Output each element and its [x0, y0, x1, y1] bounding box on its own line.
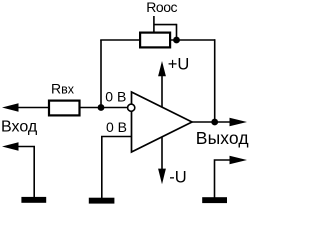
wiper tap of Rooc [153, 16, 155, 32]
ground (middle) [89, 198, 115, 204]
svg-text:0 В: 0 В [106, 119, 127, 135]
resistor Rooc [140, 33, 170, 48]
wire: feedback top horizontal [100, 39, 139, 41]
svg-text:Вход: Вход [1, 119, 38, 136]
ground (right) [202, 197, 227, 203]
wire: Rвх to summing node [80, 107, 102, 109]
svg-text:0 В: 0 В [105, 89, 126, 105]
svg-text:+U: +U [168, 56, 190, 74]
op-amp U1 triangle [132, 92, 193, 152]
+U supply line [161, 74, 163, 107]
wire: non-inverting input [102, 137, 132, 199]
inverting input bubble [128, 104, 135, 111]
output terminal arrow (upper, Выход) [230, 118, 248, 127]
svg-text:Выход: Выход [196, 128, 249, 148]
wire: op-amp output to node [192, 121, 230, 123]
node: output junction dot [211, 119, 218, 126]
svg-text:Rвх: Rвх [51, 81, 75, 97]
input terminal arrow (lower, grounded) [2, 142, 19, 150]
wire: input arrow to Rвх [17, 107, 49, 109]
wire: summing node to inverting input bubble [101, 107, 128, 109]
node: Rooc-output junction dot [173, 37, 180, 44]
-U supply line [161, 137, 163, 170]
node: summing junction dot [98, 104, 105, 111]
resistor Rвх [49, 101, 80, 116]
+U supply arrowhead [158, 61, 166, 76]
-U supply arrowhead [158, 169, 166, 185]
wire: lower input arrow to ground [17, 147, 34, 199]
wire: lower output arrow to ground [215, 160, 231, 198]
wire: Rooc right to corner [171, 39, 215, 41]
input terminal arrow (upper, Вход) [2, 103, 19, 111]
wire: feedback right vertical to output node [214, 39, 216, 122]
svg-text:-U: -U [169, 168, 186, 186]
output terminal arrow (lower, grounded) [230, 156, 248, 165]
wire: feedback left vertical [100, 40, 102, 108]
ground (left) [21, 197, 46, 203]
svg-text:Rooc: Rooc [146, 0, 177, 15]
